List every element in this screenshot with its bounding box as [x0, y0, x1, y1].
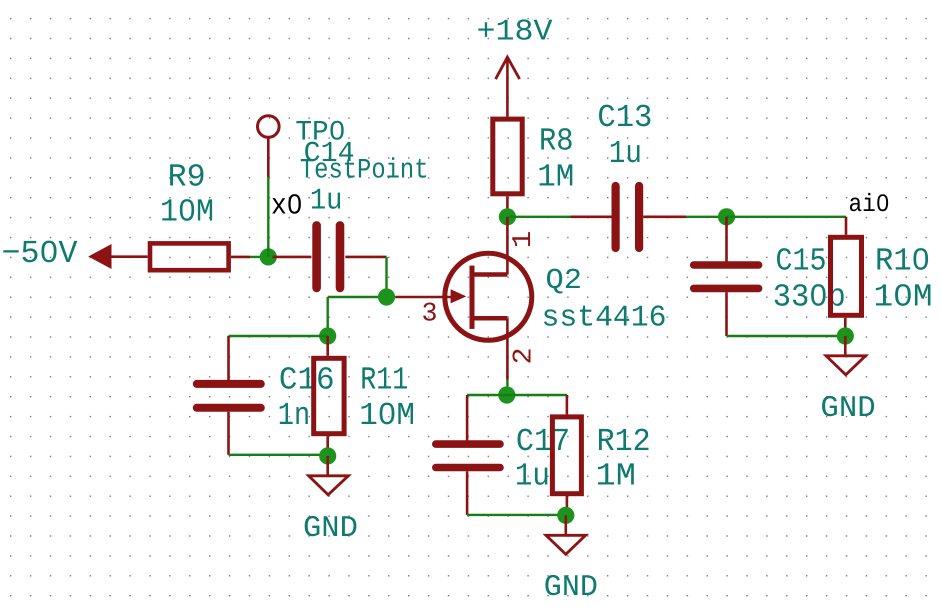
svg-text:+18V: +18V	[477, 16, 553, 50]
wire	[328, 296, 396, 298]
C14 pin leads	[273, 256, 312, 259]
GND1 pin lead	[326, 456, 329, 476]
Q2 source pin 2 lead	[506, 318, 509, 379]
power +18V	[477, 16, 553, 117]
capacitor C17	[436, 395, 570, 515]
svg-text:GND: GND	[303, 512, 358, 546]
svg-text:C14: C14	[304, 137, 355, 170]
C16 top pin lead	[227, 336, 230, 380]
Q2 gate pin 3 lead	[396, 296, 452, 299]
TP0 pin lead	[267, 137, 270, 177]
svg-text:1M: 1M	[596, 458, 636, 495]
GND2 pin lead	[564, 515, 567, 535]
Q2 body circle	[445, 253, 532, 340]
wire	[250, 256, 268, 258]
svg-text:1n: 1n	[278, 397, 310, 434]
wire	[229, 454, 328, 456]
capacitor C14	[273, 137, 387, 288]
svg-text:1u: 1u	[515, 458, 550, 495]
svg-text:−50V: −50V	[2, 235, 79, 272]
testpoint TP0	[258, 116, 429, 187]
R12 bottom pin lead	[566, 496, 569, 515]
C15 top pin lead	[725, 217, 728, 262]
svg-text:1: 1	[509, 231, 539, 249]
C16 bottom pin lead	[227, 412, 230, 455]
GND2 triangle	[546, 535, 586, 554]
svg-text:2: 2	[509, 348, 539, 365]
resistor R9	[150, 159, 250, 271]
node junction J9	[837, 327, 854, 344]
svg-text:1u: 1u	[310, 185, 343, 219]
svg-text:C17: C17	[516, 423, 570, 460]
ground GND1	[303, 456, 358, 546]
Q2 channel bar	[470, 266, 475, 329]
resistor R8	[493, 119, 575, 217]
resistor R10	[831, 217, 933, 336]
wire	[267, 177, 269, 257]
svg-text:R8: R8	[539, 123, 574, 160]
wire	[385, 257, 387, 297]
svg-text:C15: C15	[776, 243, 827, 280]
GND1 triangle	[309, 476, 349, 495]
R11 bottom pin lead	[326, 436, 329, 455]
svg-text:1u: 1u	[609, 135, 642, 172]
R9 right pin lead	[231, 256, 250, 259]
node junction J6	[718, 208, 735, 225]
capacitor C13	[571, 99, 687, 248]
svg-text:Q2: Q2	[546, 264, 583, 297]
capacitor C15	[694, 217, 846, 336]
node junction J5	[499, 208, 516, 225]
svg-text:C13: C13	[597, 99, 652, 136]
svg-text:x0: x0	[271, 190, 303, 223]
wire	[327, 297, 329, 336]
R8 body	[493, 119, 522, 194]
svg-text:GND: GND	[544, 571, 598, 605]
C13 plates	[611, 186, 619, 248]
C17 plates	[436, 440, 500, 448]
wire	[507, 394, 567, 396]
wire	[467, 394, 507, 396]
power symbol arrowhead	[496, 57, 520, 79]
ground GND3	[820, 336, 875, 426]
ground GND2	[544, 515, 598, 605]
R10 bottom pin lead	[844, 318, 847, 336]
Q2 gate arrow	[451, 289, 467, 303]
node junction J2	[378, 288, 395, 305]
GND3 triangle	[826, 356, 866, 375]
wire	[727, 216, 847, 218]
svg-text:R11: R11	[360, 361, 408, 398]
zero glyph counters (plain-zero styling)	[47, 248, 52, 254]
node junction J1	[260, 248, 277, 265]
R9 left pin lead	[112, 255, 148, 258]
C15 plates	[694, 261, 759, 269]
Q2 source connection	[475, 316, 508, 321]
R11 body	[314, 358, 344, 433]
svg-text:GND: GND	[820, 392, 875, 426]
capacitor C16	[197, 336, 335, 455]
C17 bottom pin lead	[466, 471, 469, 515]
wire	[507, 216, 570, 218]
wire	[686, 216, 727, 218]
node junction J4	[319, 447, 336, 464]
wire	[229, 335, 328, 337]
C15 bottom pin lead	[725, 292, 728, 336]
wire	[506, 380, 508, 396]
R11 top pin lead	[326, 336, 329, 356]
power arrow symbol	[88, 244, 111, 269]
C16 plates	[197, 380, 261, 388]
R10 body	[831, 237, 862, 315]
wire	[467, 514, 566, 516]
resistor R12	[552, 395, 650, 515]
transistor Q2 sst4416	[396, 217, 667, 380]
GND3 pin lead	[844, 336, 847, 356]
C17 top pin lead	[466, 395, 469, 441]
C13 pin leads	[571, 216, 612, 219]
svg-text:sst4416: sst4416	[542, 302, 667, 336]
Q2 drain pin 1 lead	[506, 217, 509, 275]
R12 top pin lead	[566, 395, 569, 414]
R10 top pin lead	[845, 217, 848, 235]
node junction J8	[557, 507, 574, 524]
node junction J3	[319, 327, 336, 344]
Q2 drain connection	[475, 272, 508, 277]
svg-text:3: 3	[422, 300, 438, 330]
power label -50V	[2, 235, 148, 272]
svg-text:C16: C16	[279, 361, 335, 398]
wire	[727, 335, 846, 337]
R12 body	[552, 417, 581, 494]
power symbol stem	[506, 57, 509, 116]
svg-text:330p: 330p	[773, 279, 846, 316]
C14 plates	[312, 225, 321, 288]
svg-text:R12: R12	[597, 423, 651, 460]
TP0 probe circle	[258, 116, 280, 138]
R8 bottom pin lead	[506, 196, 509, 217]
resistor R11	[314, 336, 415, 455]
svg-text:1M: 1M	[537, 159, 574, 196]
R9 body	[150, 243, 229, 270]
node junction J7	[498, 386, 515, 403]
svg-text:R9: R9	[168, 159, 206, 196]
